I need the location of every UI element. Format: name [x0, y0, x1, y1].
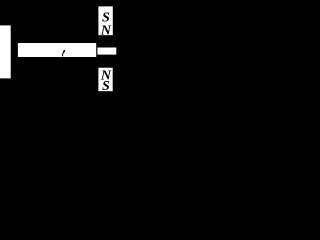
beam bar (horizontal): [18, 43, 96, 57]
pole piece bar (right of beam): [97, 48, 116, 55]
svg-text:N: N: [100, 24, 112, 39]
slash mark on beam: [62, 51, 64, 56]
svg-text:S: S: [102, 79, 110, 94]
bottom magnet box: [98, 68, 112, 92]
top magnet box: [98, 6, 112, 35]
wall support bar (left): [0, 25, 11, 78]
